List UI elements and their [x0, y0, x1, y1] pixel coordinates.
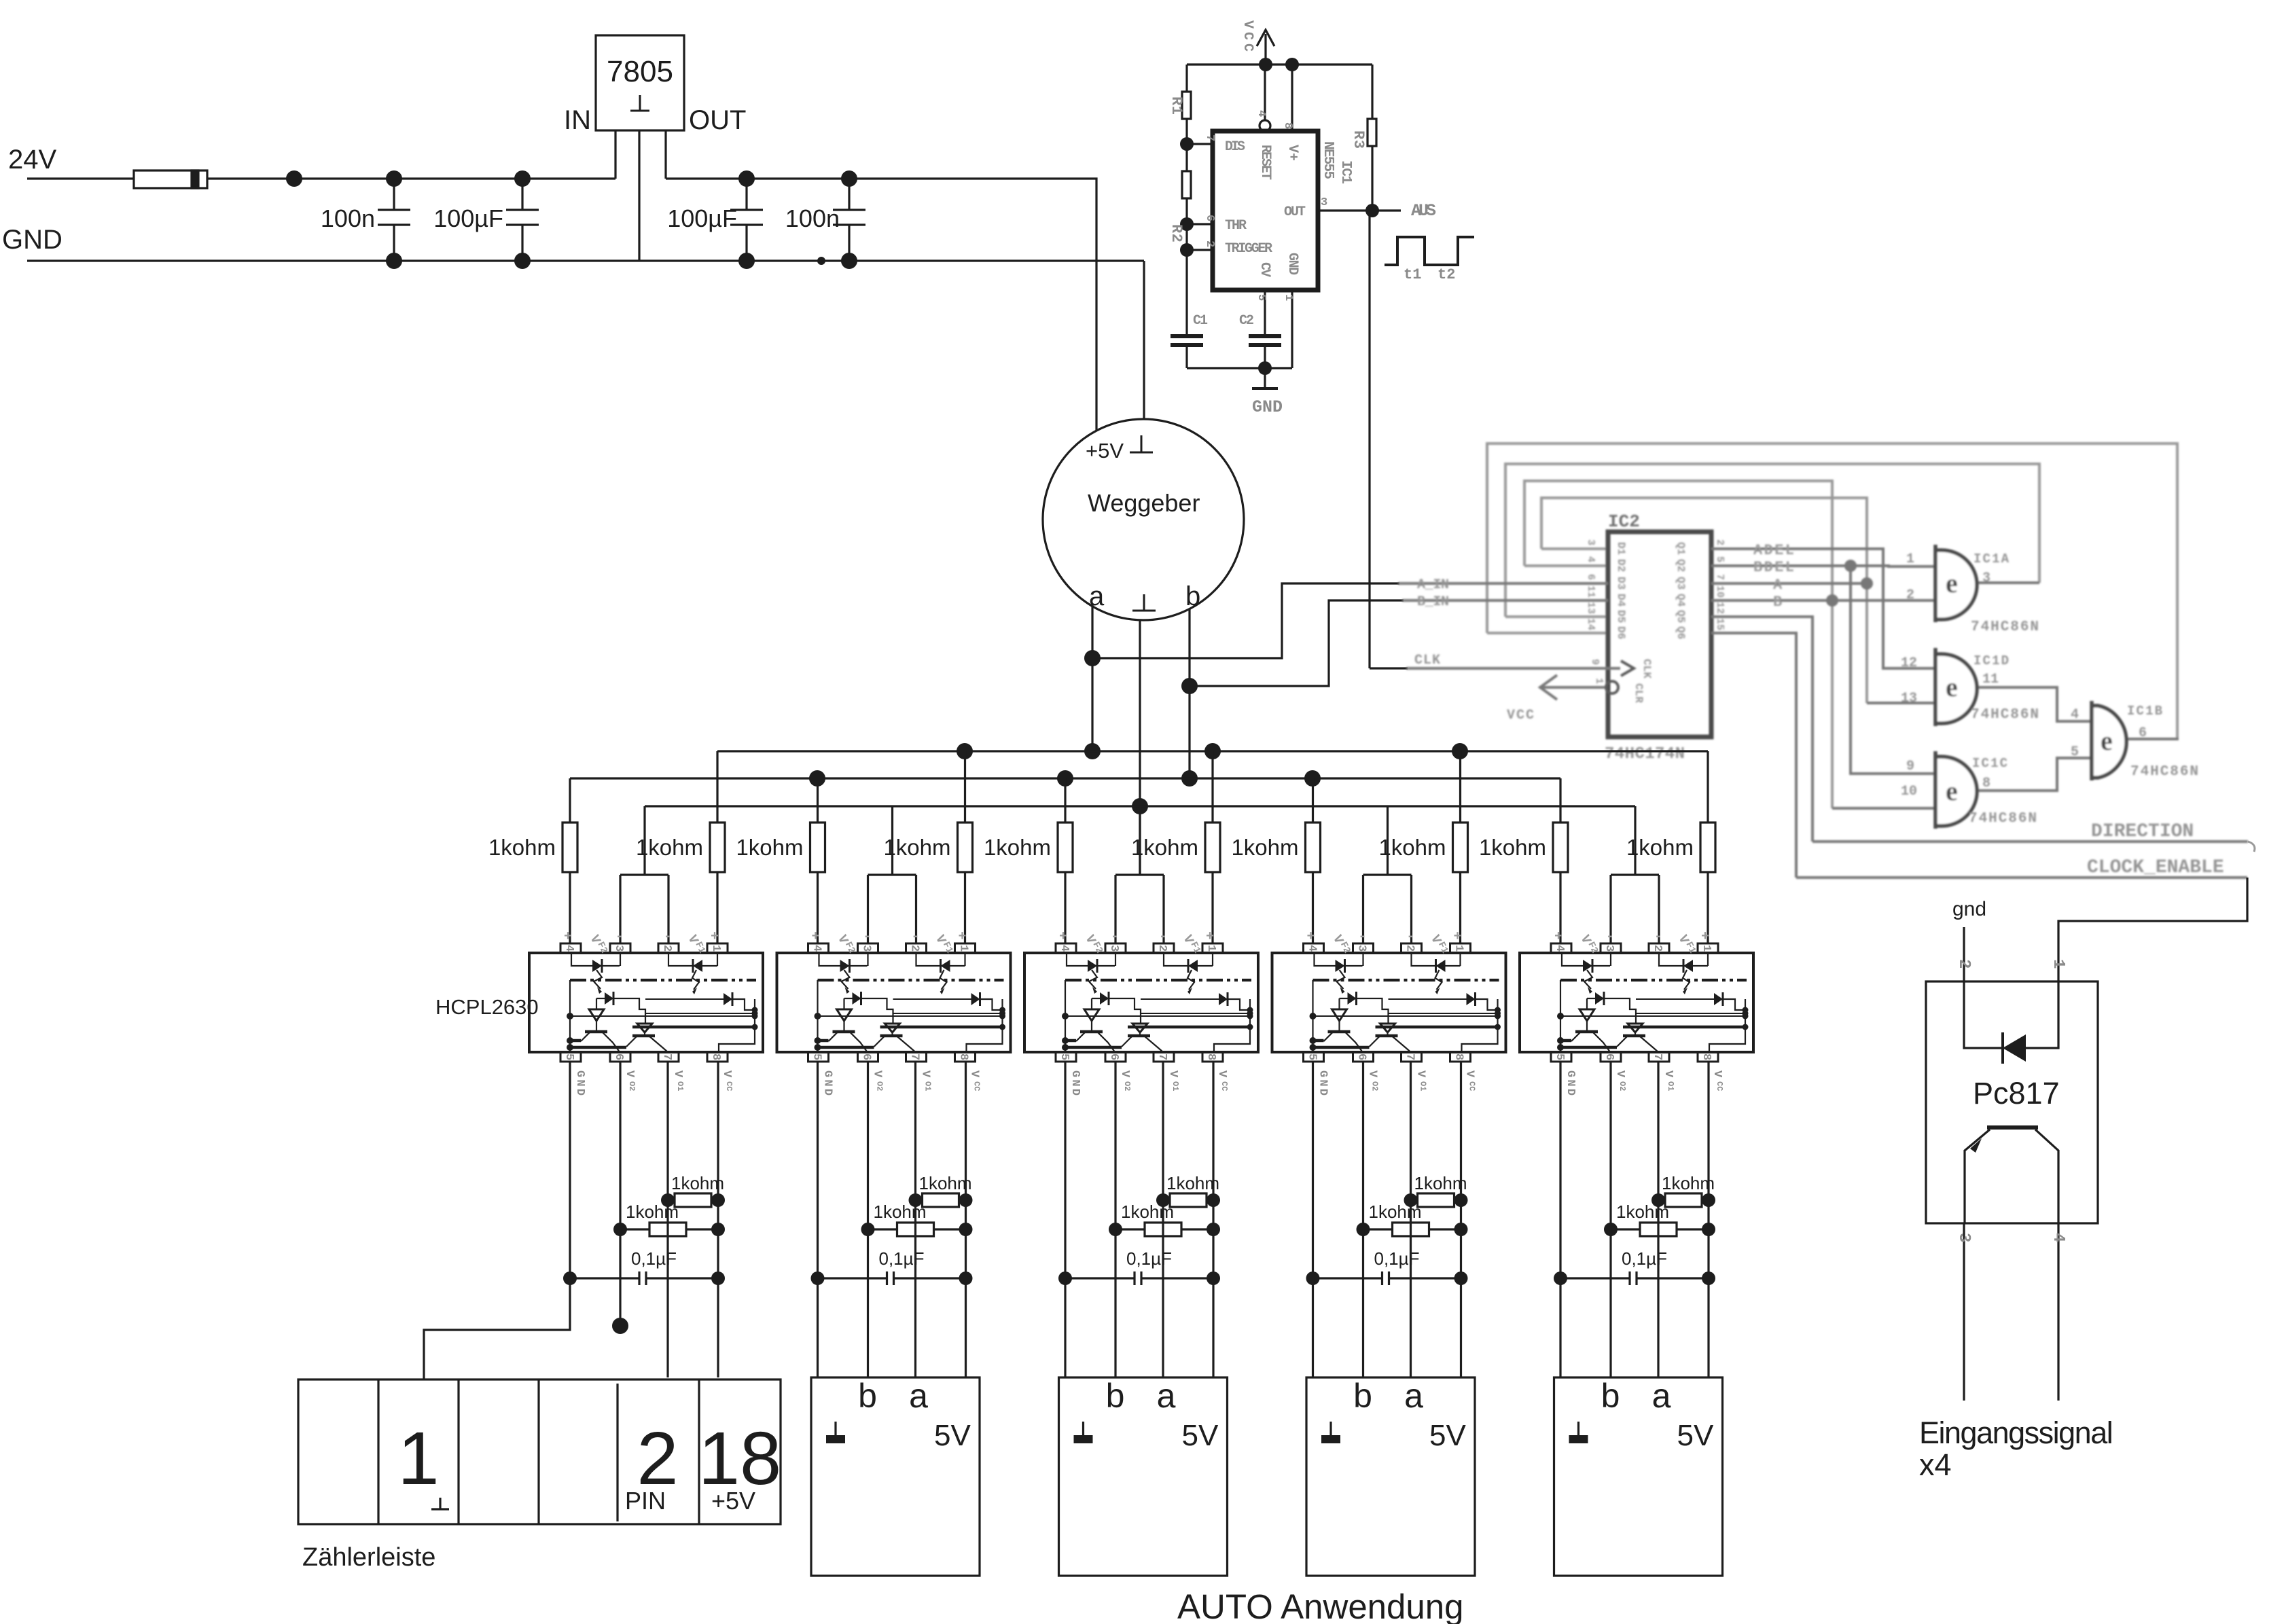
op-amp IC1D xor gate — [1935, 648, 1977, 726]
svg-text:3: 3 — [1321, 196, 1327, 209]
svg-text:12: 12 — [1901, 655, 1917, 671]
pin 4 RESET circle — [1260, 120, 1270, 131]
pin CLK wedge — [1621, 661, 1634, 676]
svg-text:CV: CV — [1257, 262, 1272, 277]
svg-text:Weggeber: Weggeber — [1088, 489, 1200, 517]
junction dot a branch — [1084, 650, 1101, 666]
wire chip4 gnd/vo2 tails — [1312, 1278, 1314, 1377]
svg-text:1: 1 — [1282, 294, 1295, 301]
junction dot Q3-D1 — [1861, 577, 1873, 590]
svg-text:CLK: CLK — [1414, 653, 1440, 668]
svg-text:2: 2 — [1954, 959, 1973, 969]
svg-text:Q5: Q5 — [1675, 610, 1687, 623]
svg-text:4: 4 — [2071, 707, 2079, 723]
ground symbol cell 1 — [439, 1498, 441, 1509]
wire pin3 OUT to AUS — [1318, 209, 1401, 211]
svg-text:10: 10 — [1714, 585, 1726, 598]
svg-text:8: 8 — [1281, 122, 1294, 129]
wire b branch to B_IN — [1190, 600, 1404, 686]
svg-text:NE555: NE555 — [1320, 141, 1336, 179]
wire bus line3 (gnd) — [645, 805, 1635, 807]
op IC2 74HC174N box — [1608, 532, 1711, 737]
junction dots NE555 — [1259, 58, 1272, 71]
svg-text:4: 4 — [1585, 556, 1596, 562]
svg-text:74HC86N: 74HC86N — [1969, 811, 2037, 827]
wire Q2 branch to IC1C in9 — [1851, 566, 1935, 774]
transistor base bar pc817 — [1987, 1125, 2038, 1130]
svg-text:7: 7 — [1203, 134, 1216, 141]
wire IC1D out to IC1B in4 — [1971, 687, 2092, 721]
junction dots line1 — [957, 743, 973, 759]
svg-text:DIS: DIS — [1225, 139, 1245, 155]
svg-text:6: 6 — [1203, 215, 1216, 221]
svg-text:3: 3 — [1954, 1233, 1973, 1242]
svg-text:74HC86N: 74HC86N — [1971, 619, 2039, 635]
ground symbol inside encoder top — [1130, 435, 1153, 452]
svg-text:D3: D3 — [1615, 577, 1627, 590]
svg-text:B_IN: B_IN — [1417, 594, 1449, 610]
wire A_IN gray — [1398, 582, 1608, 585]
svg-text:e: e — [1946, 672, 1958, 702]
op IC1 NE555 box — [1213, 131, 1318, 290]
node 24V input wire — [27, 177, 134, 179]
svg-text:THR: THR — [1225, 218, 1247, 234]
svg-text:e: e — [1946, 568, 1958, 598]
svg-text:3: 3 — [1982, 571, 1990, 586]
wire bus line2 (b) — [570, 777, 1560, 779]
capacitor 100n input — [378, 179, 410, 261]
wire D2 stub — [1524, 564, 1608, 567]
wire DIRECTION — [1812, 840, 2248, 843]
fuse F1 — [134, 170, 207, 188]
capacitor C2 / pin 5 — [1264, 290, 1266, 336]
svg-text:15: 15 — [1714, 618, 1726, 630]
svg-text:+5V: +5V — [1086, 439, 1124, 463]
chip 4 — [1231, 751, 1505, 1377]
junction dots power rails — [286, 170, 302, 187]
wire IC1B out — [2126, 738, 2179, 740]
svg-text:A: A — [1773, 577, 1783, 594]
svg-text:D2: D2 — [1615, 559, 1627, 572]
op-amp IC1B xor gate — [2092, 701, 2126, 780]
diode bar pc817 — [2001, 1032, 2004, 1064]
wire CLOCK_ENABLE — [1796, 876, 2247, 879]
pin GND of 7805 — [638, 130, 640, 261]
wire pin6 THR — [1187, 223, 1213, 225]
wire bottom rail — [1187, 367, 1292, 369]
wire feedback loop Q3 to D1 (innermost) — [1541, 498, 1867, 703]
svg-text:RESET: RESET — [1257, 145, 1273, 180]
capacitor 100uF output — [730, 179, 763, 261]
svg-text:74HC174N: 74HC174N — [1605, 745, 1685, 763]
ground symbol inside 7805 — [630, 95, 649, 111]
svg-text:100n: 100n — [321, 204, 375, 232]
wire Q3 out (A) — [1711, 582, 1867, 585]
svg-text:PIN: PIN — [625, 1487, 666, 1515]
capacitor C1 — [1185, 335, 1187, 336]
svg-text:12: 12 — [1714, 602, 1726, 614]
svg-text:74HC86N: 74HC86N — [2130, 764, 2198, 780]
diode triangle pc817 — [2003, 1034, 2026, 1062]
svg-text:e: e — [2101, 725, 2113, 756]
svg-text:CLOCK_ENABLE: CLOCK_ENABLE — [2087, 857, 2224, 878]
svg-text:14: 14 — [1585, 618, 1596, 630]
junction dot b branch — [1181, 678, 1198, 694]
chip 3 — [984, 751, 1258, 1377]
waveform square wave — [1385, 237, 1474, 265]
box Pc817 — [1926, 981, 2098, 1223]
svg-text:R3: R3 — [1350, 130, 1367, 149]
svg-text:VCC: VCC — [1507, 708, 1534, 723]
capacitor 100uF input — [506, 179, 539, 261]
op-amp IC1A xor gate — [1935, 545, 1977, 622]
svg-text:Q3: Q3 — [1675, 577, 1687, 590]
wire Q4 out (B) to IC1A in2 — [1711, 599, 1935, 602]
resistor R2 — [1182, 171, 1191, 198]
wire CLK gray — [1406, 667, 1620, 670]
wire 24V to 7805 IN — [207, 177, 615, 179]
svg-text:Q6: Q6 — [1675, 626, 1687, 639]
svg-text:CLR: CLR — [1632, 683, 1645, 703]
svg-text:1: 1 — [2049, 959, 2067, 969]
junction dot a to line1 — [1084, 743, 1101, 759]
svg-text:100µF: 100µF — [433, 204, 503, 232]
svg-text:1: 1 — [1593, 678, 1605, 684]
svg-text:HCPL2630: HCPL2630 — [435, 995, 539, 1019]
ground GND symbol — [1264, 368, 1266, 389]
wire DIRECTION end hook — [2248, 842, 2255, 852]
svg-text:Q4: Q4 — [1675, 594, 1687, 607]
svg-text:D5: D5 — [1615, 610, 1627, 623]
svg-text:24V: 24V — [8, 145, 56, 175]
svg-text:+5V: +5V — [711, 1487, 755, 1515]
pin CLR circle — [1606, 681, 1618, 693]
pin IN of 7805 — [614, 130, 616, 179]
svg-text:5: 5 — [1255, 294, 1268, 301]
svg-text:13: 13 — [1585, 602, 1596, 614]
svg-text:Eingangssignal: Eingangssignal — [1919, 1415, 2112, 1450]
wire chip1 GND to connector — [424, 1278, 570, 1379]
svg-text:C1: C1 — [1193, 313, 1208, 329]
svg-text:4: 4 — [1255, 110, 1268, 117]
svg-text:1: 1 — [1906, 552, 1914, 567]
svg-text:9: 9 — [1906, 759, 1914, 774]
capacitor 100n output — [833, 179, 865, 261]
svg-text:t2: t2 — [1437, 266, 1455, 283]
junction dot Q4-D2 — [1826, 594, 1838, 607]
wire D6 stub — [1487, 632, 1608, 634]
wire pin2 TRIGGER — [1187, 249, 1213, 251]
svg-text:Zählerleiste: Zählerleiste — [302, 1543, 435, 1572]
svg-text:t1: t1 — [1404, 266, 1421, 283]
wire chip3 gnd/vo2 tails — [1064, 1278, 1066, 1377]
svg-text:gnd: gnd — [1952, 898, 1986, 920]
svg-text:7: 7 — [1714, 574, 1726, 580]
diode internal wires — [1964, 981, 2058, 1048]
wire chip2 gnd/vo2 tails — [817, 1278, 819, 1377]
svg-text:C2: C2 — [1239, 313, 1254, 329]
svg-text:8: 8 — [1982, 776, 1990, 791]
resistor R3 — [1371, 65, 1373, 119]
wire D5 stub — [1505, 615, 1608, 618]
wire GND rail — [27, 259, 1144, 261]
svg-text:AUTO Anwendung: AUTO Anwendung — [1177, 1587, 1464, 1624]
wire chip5 gnd/vo2 tails — [1559, 1278, 1561, 1377]
svg-text:R2: R2 — [1168, 224, 1185, 242]
svg-text:x4: x4 — [1919, 1447, 1952, 1482]
svg-text:IC1A: IC1A — [1974, 552, 2010, 566]
chip 5 — [1479, 751, 1753, 1377]
svg-text:Q2: Q2 — [1675, 559, 1687, 572]
phototransistor wires — [1965, 1130, 1990, 1223]
wire IC1A out — [1971, 581, 2039, 584]
svg-text:e: e — [1946, 776, 1958, 806]
wire IC1D in13 — [1867, 702, 1935, 704]
svg-text:TRIGGER: TRIGGER — [1225, 241, 1272, 257]
svg-text:100µF: 100µF — [667, 204, 737, 232]
emitter arrow pc817 — [1970, 1138, 1982, 1153]
wire feedback loop Q4 to D2 — [1524, 481, 1832, 808]
svg-text:2: 2 — [1906, 588, 1914, 603]
svg-text:74HC86N: 74HC86N — [1971, 707, 2039, 723]
wire VCC top rail — [1187, 63, 1372, 65]
wire B_IN gray — [1402, 599, 1608, 602]
wire D1 stub — [1541, 547, 1608, 550]
svg-text:R1: R1 — [1168, 96, 1185, 115]
svg-text:11: 11 — [1982, 672, 1999, 687]
wire GND down to Weggeber — [1143, 261, 1145, 419]
wire 5V output rail — [666, 179, 1096, 430]
junction dot b to line2 — [1181, 770, 1198, 787]
svg-text:AUS: AUS — [1411, 201, 1436, 221]
pin 1 GND — [1291, 290, 1293, 368]
svg-text:5: 5 — [1714, 556, 1726, 562]
wire AUS down to CLK — [1368, 211, 1370, 668]
wire gnd to pc817 pin2 — [1963, 927, 1965, 981]
svg-text:2: 2 — [1203, 240, 1216, 247]
svg-text:GND: GND — [1285, 253, 1300, 275]
wire Q5 out — [1711, 617, 1812, 842]
svg-text:IC2: IC2 — [1608, 511, 1640, 532]
wire a branch to A_IN — [1092, 583, 1399, 658]
svg-text:Pc817: Pc817 — [1973, 1076, 2060, 1111]
svg-text:2: 2 — [1714, 539, 1726, 545]
wire CLR arrow — [1540, 686, 1605, 689]
svg-text:CLK: CLK — [1641, 659, 1653, 679]
chip 1 — [488, 751, 763, 1377]
pin OUT of 7805 — [664, 130, 666, 179]
svg-text:D6: D6 — [1615, 626, 1627, 639]
legs down — [1963, 1223, 1965, 1401]
svg-text:10: 10 — [1901, 784, 1917, 799]
svg-text:6: 6 — [1585, 574, 1596, 580]
svg-text:9: 9 — [1589, 659, 1601, 665]
svg-text:13: 13 — [1901, 691, 1917, 706]
wire bus line1 (a) — [717, 750, 1708, 752]
svg-text:OUT: OUT — [1284, 204, 1306, 220]
svg-text:VCC: VCC — [1240, 20, 1255, 52]
svg-text:Q1: Q1 — [1675, 542, 1687, 555]
regulator U-7805 box — [596, 35, 684, 130]
junction dot gnd to line3 — [1132, 798, 1148, 814]
wire clock_enable to pc817 pin1 — [2058, 878, 2247, 981]
ground symbol inside encoder bottom — [1132, 594, 1156, 611]
svg-text:11: 11 — [1585, 585, 1596, 598]
svg-text:GND: GND — [1252, 397, 1283, 417]
svg-text:DIRECTION: DIRECTION — [2091, 821, 2194, 842]
svg-text:B: B — [1773, 594, 1782, 611]
svg-text:a: a — [1089, 581, 1105, 611]
op-amp IC1C xor gate — [1935, 751, 1977, 829]
pin b wire down — [1188, 609, 1190, 778]
wire Q6 out — [1711, 633, 1796, 878]
svg-text:A_IN: A_IN — [1417, 577, 1449, 593]
svg-text:D4: D4 — [1615, 594, 1627, 607]
svg-text:4: 4 — [2049, 1233, 2067, 1242]
svg-text:D1: D1 — [1615, 542, 1627, 555]
junction dot chip1 VO2 end — [612, 1318, 628, 1334]
svg-text:IN: IN — [564, 105, 591, 135]
svg-text:3: 3 — [1585, 539, 1596, 545]
junction dot Q2 branch — [1844, 560, 1857, 572]
wire pin7 DIS — [1187, 143, 1213, 145]
junction dots line2 — [809, 770, 825, 787]
wire CLK horizontal — [1370, 667, 1408, 669]
svg-text:1: 1 — [397, 1417, 439, 1500]
svg-text:IC1: IC1 — [1338, 160, 1353, 184]
wire IC1C out to IC1B in5 — [1971, 758, 2092, 791]
wire Q2 out to IC1A in1 — [1711, 566, 1935, 566]
wire feedback loop IC1A out to D5 — [1505, 464, 2039, 617]
pin gnd wire down — [1139, 620, 1141, 875]
svg-text:OUT: OUT — [689, 105, 746, 135]
svg-text:7805: 7805 — [607, 55, 673, 88]
svg-text:V+: V+ — [1285, 145, 1300, 161]
chip 2 — [736, 751, 1010, 1377]
wire Q1 out to IC1D in12 — [1711, 549, 1935, 668]
wire chip1 VO2 stub — [619, 1229, 621, 1326]
svg-text:100n: 100n — [785, 204, 840, 232]
svg-text:6: 6 — [2139, 725, 2147, 741]
resistor R1 — [1185, 65, 1187, 92]
power VCC arrow — [1264, 34, 1266, 65]
svg-text:5: 5 — [2071, 744, 2079, 760]
pin 8 V+ — [1291, 65, 1293, 131]
svg-text:b: b — [1185, 581, 1200, 611]
encoder circle — [1043, 419, 1244, 620]
wire feedback loop Q6 to D6 (outermost) — [1487, 444, 2177, 739]
wire IC1C in10 — [1832, 807, 1935, 810]
pin a wire down — [1091, 607, 1093, 751]
svg-text:GND: GND — [2, 225, 62, 255]
